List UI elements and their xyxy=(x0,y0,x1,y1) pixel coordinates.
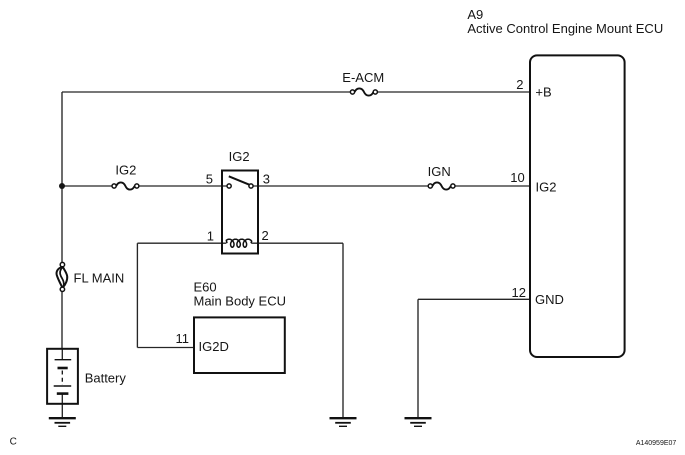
svg-text:IG2: IG2 xyxy=(115,162,136,177)
svg-text:11: 11 xyxy=(176,331,190,346)
svg-text:IG2D: IG2D xyxy=(199,339,229,354)
svg-text:12: 12 xyxy=(512,285,526,300)
svg-text:IGN: IGN xyxy=(428,164,451,179)
svg-text:Battery: Battery xyxy=(85,370,127,385)
svg-text:2: 2 xyxy=(262,228,269,243)
svg-text:2: 2 xyxy=(516,77,523,92)
svg-text:5: 5 xyxy=(206,172,213,187)
svg-text:+B: +B xyxy=(535,85,551,100)
svg-text:C: C xyxy=(10,437,17,448)
svg-text:IG2: IG2 xyxy=(536,180,557,195)
svg-text:A140959E07: A140959E07 xyxy=(636,440,677,447)
svg-text:E60: E60 xyxy=(194,280,217,295)
svg-text:Main Body ECU: Main Body ECU xyxy=(194,293,286,308)
svg-text:3: 3 xyxy=(263,172,270,187)
svg-text:Active Control Engine Mount EC: Active Control Engine Mount ECU xyxy=(467,21,663,36)
svg-text:10: 10 xyxy=(510,170,524,185)
svg-text:GND: GND xyxy=(535,292,564,307)
svg-text:A9: A9 xyxy=(467,7,483,22)
svg-text:E-ACM: E-ACM xyxy=(342,70,384,85)
svg-text:IG2: IG2 xyxy=(229,149,250,164)
svg-text:FL MAIN: FL MAIN xyxy=(74,271,125,286)
svg-text:1: 1 xyxy=(207,229,214,244)
